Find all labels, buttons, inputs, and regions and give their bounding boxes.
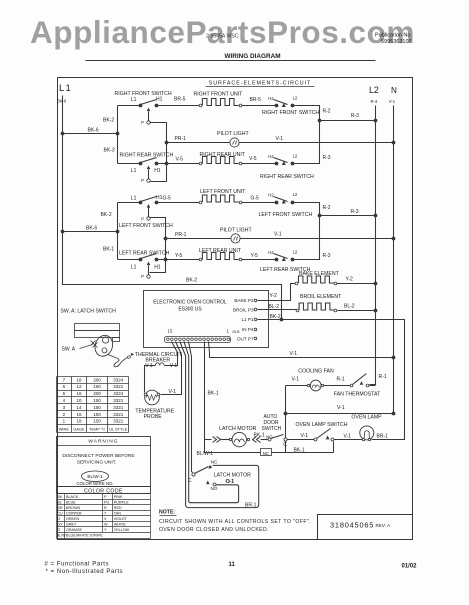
wire L1 rail xyxy=(63,96,282,320)
latch switch bracket drawing xyxy=(75,324,120,331)
svg-text:# = Functional Parts: # = Functional Parts xyxy=(45,562,110,568)
svg-text:P: P xyxy=(141,120,144,125)
svg-text:NOTE:: NOTE: xyxy=(159,510,175,516)
svg-text:PR-1: PR-1 xyxy=(175,136,187,142)
svg-text:150: 150 xyxy=(93,412,101,417)
svg-text:P: P xyxy=(141,274,144,279)
svg-text:BAKE P2: BAKE P2 xyxy=(234,298,254,303)
svg-text:OVEN LAMP: OVEN LAMP xyxy=(351,414,382,420)
svg-text:RIGHT REAR SWITCH: RIGHT REAR SWITCH xyxy=(260,174,314,180)
svg-text:200: 200 xyxy=(93,391,101,396)
wire V-1 to oven lamp switch xyxy=(288,439,315,441)
wire harness 2 to temperature probe xyxy=(161,342,182,395)
wire harness O-1 loop to latch NO xyxy=(184,342,239,503)
svg-text:R-3: R-3 xyxy=(323,253,331,259)
wire R-3 horizontal to L2 rail xyxy=(320,120,376,122)
svg-text:PR-1: PR-1 xyxy=(175,232,187,238)
svg-text:N: N xyxy=(391,86,397,95)
svg-text:V-5: V-5 xyxy=(176,156,184,162)
latch motor aux switch common xyxy=(192,473,195,476)
svg-text:BROIL ELEMENT: BROIL ELEMENT xyxy=(300,294,342,300)
svg-text:SWITCH: SWITCH xyxy=(262,426,282,432)
EOC connector strip xyxy=(165,337,231,343)
svg-text:BK-3: BK-3 xyxy=(104,147,115,153)
svg-text:NC: NC xyxy=(263,451,269,456)
svg-text:BK-2: BK-2 xyxy=(186,278,197,284)
svg-text:3321: 3321 xyxy=(113,398,124,403)
wire R-3 left rear to junction xyxy=(293,216,320,260)
svg-text:L2: L2 xyxy=(293,95,298,100)
svg-text:O-1: O-1 xyxy=(226,479,235,485)
svg-text:BK-1: BK-1 xyxy=(103,246,114,252)
svg-text:H1: H1 xyxy=(154,168,161,174)
wire PR-1 to pilot light 1 xyxy=(167,142,230,144)
svg-text:150: 150 xyxy=(93,384,101,389)
svg-text:ORANGE: ORANGE xyxy=(66,528,83,532)
junction pilot bus 2 PR-1 xyxy=(164,237,168,241)
wire harness 1 to thermal breaker xyxy=(169,342,178,366)
svg-text:11: 11 xyxy=(229,562,236,568)
wire BK-2 P1 node xyxy=(258,319,282,321)
wire Y-2 P2 to bake element xyxy=(258,284,296,301)
svg-text:R-1: R-1 xyxy=(379,374,387,380)
svg-text:P: P xyxy=(141,178,144,183)
junction N rail end xyxy=(392,412,396,416)
latch switch wire squiggle xyxy=(108,355,128,367)
svg-text:R-3: R-3 xyxy=(351,209,359,215)
svg-text:BK-1: BK-1 xyxy=(254,432,265,438)
wire R-3 left pair to L2 rail xyxy=(320,215,376,217)
wire G-5 to left front unit xyxy=(157,202,200,204)
svg-text:H1: H1 xyxy=(154,264,161,270)
svg-text:V-1: V-1 xyxy=(389,99,396,104)
svg-text:C: C xyxy=(188,478,192,484)
wire harness BK-1 to latch motor xyxy=(205,342,261,453)
svg-text:14: 14 xyxy=(76,405,82,410)
svg-text:LEFT REAR SWITCH: LEFT REAR SWITCH xyxy=(119,250,170,256)
warning box xyxy=(57,437,151,487)
svg-text:18: 18 xyxy=(76,419,82,424)
svg-text:RED: RED xyxy=(114,506,122,510)
wire Y-5 right side xyxy=(242,259,277,261)
svg-text:L1: L1 xyxy=(131,97,137,103)
svg-text:18: 18 xyxy=(76,377,82,382)
svg-text:H2: H2 xyxy=(268,96,274,101)
svg-text:01/02: 01/02 xyxy=(402,564,418,570)
svg-text:PROBE: PROBE xyxy=(144,414,163,420)
junction on L1 rail upper xyxy=(61,132,65,136)
svg-text:10: 10 xyxy=(76,398,82,403)
svg-text:O: O xyxy=(57,528,60,532)
svg-text:GREY: GREY xyxy=(66,523,77,527)
svg-text:BLUE: BLUE xyxy=(66,501,76,505)
svg-text:RIGHT REAR SWITCH: RIGHT REAR SWITCH xyxy=(120,152,174,158)
svg-text:PINK: PINK xyxy=(114,495,123,499)
wire BL-2 P3 to broil element xyxy=(258,309,297,311)
svg-text:FAN THERMOSTAT: FAN THERMOSTAT xyxy=(334,392,381,398)
svg-text:BROWN: BROWN xyxy=(66,506,80,510)
svg-text:15: 15 xyxy=(168,329,173,334)
svg-text:PU: PU xyxy=(104,501,109,505)
svg-text:BL-2: BL-2 xyxy=(344,304,355,310)
svg-text:SURFACE-ELEMENTS-CIRCUIT: SURFACE-ELEMENTS-CIRCUIT xyxy=(209,80,312,86)
wire breaker to probe xyxy=(145,366,151,393)
svg-text:R: R xyxy=(104,506,107,510)
svg-text:BROIL P3: BROIL P3 xyxy=(233,308,254,313)
svg-text:R-3: R-3 xyxy=(351,113,359,119)
svg-text:V-5: V-5 xyxy=(249,156,257,162)
svg-text:GY: GY xyxy=(57,523,63,527)
svg-text:BK-2: BK-2 xyxy=(103,117,114,123)
svg-text:H2: H2 xyxy=(268,192,274,197)
svg-text:3321: 3321 xyxy=(113,384,124,389)
svg-text:200: 200 xyxy=(93,377,101,382)
wire lamp switch drop xyxy=(333,442,335,453)
wire NC box line BK-1 xyxy=(261,449,272,456)
svg-text:RIGHT FRONT UNIT: RIGHT FRONT UNIT xyxy=(194,92,244,98)
svg-text:V-1: V-1 xyxy=(170,363,178,369)
svg-text:SERVICING UNIT.: SERVICING UNIT. xyxy=(77,459,117,465)
wire fan drop vertical xyxy=(285,386,287,439)
svg-text:L2: L2 xyxy=(293,153,298,158)
svg-text:L1: L1 xyxy=(131,264,137,270)
wire PR-1 to pilot light 2 xyxy=(166,238,231,240)
svg-text:R-2: R-2 xyxy=(323,205,331,211)
svg-text:150: 150 xyxy=(93,405,101,410)
wire V-5 to right rear unit xyxy=(157,163,200,165)
wire BK-2 / BK-3 vertical upper pair xyxy=(117,106,119,164)
junction pilot bus PR-1 xyxy=(165,141,169,145)
svg-text:5995363107: 5995363107 xyxy=(381,39,412,45)
junction BK-2 node xyxy=(280,318,284,322)
wire BR-5 right side xyxy=(242,105,277,107)
svg-text:3324: 3324 xyxy=(113,377,124,382)
svg-text:L1: L1 xyxy=(131,168,137,174)
svg-text:R-2: R-2 xyxy=(323,108,331,114)
wire N rail xyxy=(393,106,395,414)
svg-text:SW. A: LATCH SWITCH: SW. A: LATCH SWITCH xyxy=(60,309,116,315)
wire BK-6 upper feed xyxy=(63,133,118,135)
wire harness V-1 line xyxy=(209,342,394,358)
svg-text:COLOR WIRE NO.: COLOR WIRE NO. xyxy=(76,481,113,486)
svg-text:Y-2: Y-2 xyxy=(270,293,278,299)
wire V-5 right side xyxy=(242,163,277,165)
svg-text:V-1: V-1 xyxy=(301,433,309,439)
svg-text:OVEN LAMP SWITCH: OVEN LAMP SWITCH xyxy=(295,422,347,428)
svg-text:Y-2: Y-2 xyxy=(346,277,354,283)
wire V-1 pilot 2 to N xyxy=(241,238,394,240)
schematic border frame xyxy=(58,78,413,540)
svg-text:BL/W: BL/W xyxy=(57,534,66,538)
svg-text:VIOLET: VIOLET xyxy=(114,517,128,521)
wire BK-2 long run to oven lamp xyxy=(282,320,405,440)
svg-text:BR-1: BR-1 xyxy=(245,502,257,508)
svg-text:GAGE: GAGE xyxy=(73,427,85,432)
wire L2 rail xyxy=(370,106,376,385)
junction N rail V-1 xyxy=(392,356,396,360)
svg-text:150: 150 xyxy=(93,398,101,403)
svg-text:P: P xyxy=(141,217,144,222)
junction N rail pilot1 xyxy=(392,141,396,145)
wire fan to thermostat xyxy=(324,385,351,387)
svg-text:R-1: R-1 xyxy=(337,377,345,383)
svg-text:LEFT FRONT UNIT: LEFT FRONT UNIT xyxy=(200,189,246,195)
svg-text:H1: H1 xyxy=(156,96,163,102)
latch motor aux switch NO contact xyxy=(206,481,210,485)
svg-text:3324: 3324 xyxy=(113,391,124,396)
svg-text:Y-5: Y-5 xyxy=(175,253,183,259)
junction N rail pilot2 xyxy=(392,237,396,241)
svg-text:V-1: V-1 xyxy=(292,377,300,383)
svg-text:TAN: TAN xyxy=(114,512,121,516)
latch switch cam drawing xyxy=(92,333,115,358)
svg-text:L2: L2 xyxy=(369,85,379,95)
svg-text:WIRING DIAGRAM: WIRING DIAGRAM xyxy=(224,53,280,60)
svg-text:LEFT FRONT SWITCH: LEFT FRONT SWITCH xyxy=(119,223,173,229)
svg-text:L2: L2 xyxy=(293,249,298,254)
svg-text:BK: BK xyxy=(57,495,62,499)
svg-text:BR: BR xyxy=(57,506,62,510)
svg-text:COOLING FAN: COOLING FAN xyxy=(298,369,334,375)
junction on L1 rail lower xyxy=(61,230,65,234)
svg-text:H2: H2 xyxy=(268,154,274,159)
svg-text:REV: A: REV: A xyxy=(376,523,392,528)
svg-text:BL-2: BL-2 xyxy=(269,304,280,310)
wire G-5 right side xyxy=(242,202,277,204)
wire BL-2 broil to L2 rail xyxy=(338,310,376,312)
svg-text:SW. A: SW. A xyxy=(62,346,76,352)
svg-text:3321: 3321 xyxy=(113,405,124,410)
svg-text:PILOT LIGHT: PILOT LIGHT xyxy=(220,227,252,233)
svg-text:16: 16 xyxy=(76,391,82,396)
svg-text:COPPER: COPPER xyxy=(66,512,82,516)
svg-text:H2: H2 xyxy=(268,250,274,255)
svg-text:318045065: 318045065 xyxy=(330,521,374,530)
svg-text:BK-1: BK-1 xyxy=(294,447,305,453)
electronic oven control EOC box xyxy=(144,291,269,348)
wire BK-2 / BK-1 vertical lower pair xyxy=(117,203,119,260)
svg-text:NO: NO xyxy=(211,486,218,491)
svg-text:GREEN: GREEN xyxy=(66,517,79,521)
svg-text:Y-5: Y-5 xyxy=(251,253,259,259)
wire pilot bus left pair xyxy=(150,218,166,273)
svg-text:3321: 3321 xyxy=(113,419,124,424)
part number box 318045065 xyxy=(318,515,413,540)
svg-text:V-1: V-1 xyxy=(169,389,177,395)
svg-text:W: W xyxy=(104,523,108,527)
svg-text:V-1: V-1 xyxy=(274,231,282,237)
svg-text:2 3545A WSC: 2 3545A WSC xyxy=(206,34,239,40)
fan thermostat xyxy=(350,384,353,387)
wire harness BL/W-1 to latch common xyxy=(189,342,193,473)
svg-text:OUT P7: OUT P7 xyxy=(237,337,254,342)
svg-text:ES300 US: ES300 US xyxy=(178,306,202,312)
svg-text:V-1: V-1 xyxy=(337,405,345,411)
svg-text:DISCONNECT POWER BEFORE: DISCONNECT POWER BEFORE xyxy=(62,453,134,459)
svg-text:* = Non-Illustrated Parts: * = Non-Illustrated Parts xyxy=(46,569,124,575)
svg-text:NC: NC xyxy=(211,459,218,464)
svg-text:G: G xyxy=(57,517,60,521)
svg-text:LEFT FRONT SWITCH: LEFT FRONT SWITCH xyxy=(259,212,313,218)
wire Y-5 to left rear unit xyxy=(157,259,200,261)
color code table xyxy=(57,487,151,494)
svg-text:BL: BL xyxy=(57,501,62,505)
svg-text:WHITE: WHITE xyxy=(114,523,126,527)
svg-text:Publication No.: Publication No. xyxy=(375,33,412,39)
wire lamp switch to oven lamp xyxy=(334,439,363,441)
arrow to thermal breaker xyxy=(131,353,134,356)
wire BK-6 lower feed xyxy=(63,231,118,233)
wire R-2 to L2 junction xyxy=(293,106,320,121)
wire R-2 left pair to junction xyxy=(293,203,320,216)
svg-text:OVEN DOOR CLOSED AND UNLOCKED.: OVEN DOOR CLOSED AND UNLOCKED. xyxy=(159,527,269,533)
svg-text:TEMP °C: TEMP °C xyxy=(89,427,105,432)
wire pilot bus right pair xyxy=(150,123,167,182)
wire BR-5 to right front unit xyxy=(157,105,200,107)
svg-text:BK-1: BK-1 xyxy=(208,391,219,397)
svg-text:L1: L1 xyxy=(131,196,137,202)
svg-text:150: 150 xyxy=(93,419,101,424)
svg-text:DLB: DLB xyxy=(233,330,241,334)
wire harness BR-1 loop to latch NC xyxy=(180,342,259,508)
svg-text:BK-2: BK-2 xyxy=(101,212,112,218)
latch switch X marks xyxy=(91,341,96,346)
svg-text:IN P4: IN P4 xyxy=(242,327,254,332)
svg-text:R-4: R-4 xyxy=(371,99,378,104)
svg-text:G-5: G-5 xyxy=(251,196,260,202)
svg-text:BK-6: BK-6 xyxy=(86,225,97,231)
svg-text:3321: 3321 xyxy=(113,412,124,417)
svg-text:RIGHT FRONT SWITCH: RIGHT FRONT SWITCH xyxy=(115,91,172,97)
svg-text:BL/W-1: BL/W-1 xyxy=(87,474,103,479)
svg-text:L1 P1: L1 P1 xyxy=(241,317,253,322)
svg-text:R-3: R-3 xyxy=(323,155,331,161)
svg-text:BK-6: BK-6 xyxy=(88,127,99,133)
svg-text:12: 12 xyxy=(76,384,82,389)
svg-text:BR-1: BR-1 xyxy=(377,434,389,440)
svg-text:WARNING: WARNING xyxy=(88,439,118,445)
svg-text:V-1: V-1 xyxy=(344,433,352,439)
junction fan drop at V-1 line2 xyxy=(284,412,288,416)
svg-text:PILOT LIGHT: PILOT LIGHT xyxy=(217,131,249,137)
svg-text:LATCH MOTOR: LATCH MOTOR xyxy=(219,426,257,432)
svg-text:ELECTRONIC OVEN CONTROL: ELECTRONIC OVEN CONTROL xyxy=(153,299,227,305)
svg-text:UL STYLE: UL STYLE xyxy=(109,427,128,432)
svg-text:V-1: V-1 xyxy=(290,351,298,357)
svg-text:YELLOW: YELLOW xyxy=(114,528,130,532)
svg-text:CU: CU xyxy=(57,512,63,516)
svg-text:PURPLE: PURPLE xyxy=(114,501,129,505)
svg-text:LATCH MOTOR: LATCH MOTOR xyxy=(214,472,252,478)
wire Y-2 bake to L2 rail xyxy=(337,283,376,285)
svg-text:16: 16 xyxy=(76,412,82,417)
svg-text:BK-2: BK-2 xyxy=(270,314,281,320)
svg-text:G-5: G-5 xyxy=(163,196,172,202)
svg-text:BLUE/WHITE STRIPE: BLUE/WHITE STRIPE xyxy=(66,534,103,538)
title underline xyxy=(86,60,376,62)
svg-text:RIGHT FRONT SWITCH: RIGHT FRONT SWITCH xyxy=(262,110,319,116)
svg-text:WIRE: WIRE xyxy=(59,427,70,432)
svg-text:L2: L2 xyxy=(293,192,298,197)
svg-text:L1: L1 xyxy=(59,83,72,94)
svg-text:BR-5: BR-5 xyxy=(250,97,262,103)
svg-text:AppliancePartsPros.com: AppliancePartsPros.com xyxy=(30,14,415,50)
wire gauge table xyxy=(57,376,129,378)
wire R-3 rear to junction xyxy=(293,121,320,164)
wire V-1 pilot 1 to N xyxy=(240,142,394,144)
svg-text:CIRCUIT SHOWN WITH ALL CONTROL: CIRCUIT SHOWN WITH ALL CONTROLS SET TO "… xyxy=(159,519,311,525)
svg-text:BLACK: BLACK xyxy=(66,495,79,499)
svg-text:BR-5: BR-5 xyxy=(174,96,186,102)
temperature probe xyxy=(145,390,160,405)
auto door switch common terminal C xyxy=(284,438,287,441)
wire V-1 line2 to N rail xyxy=(286,413,394,415)
svg-text:C: C xyxy=(283,442,287,448)
svg-text:V-1: V-1 xyxy=(276,136,284,142)
